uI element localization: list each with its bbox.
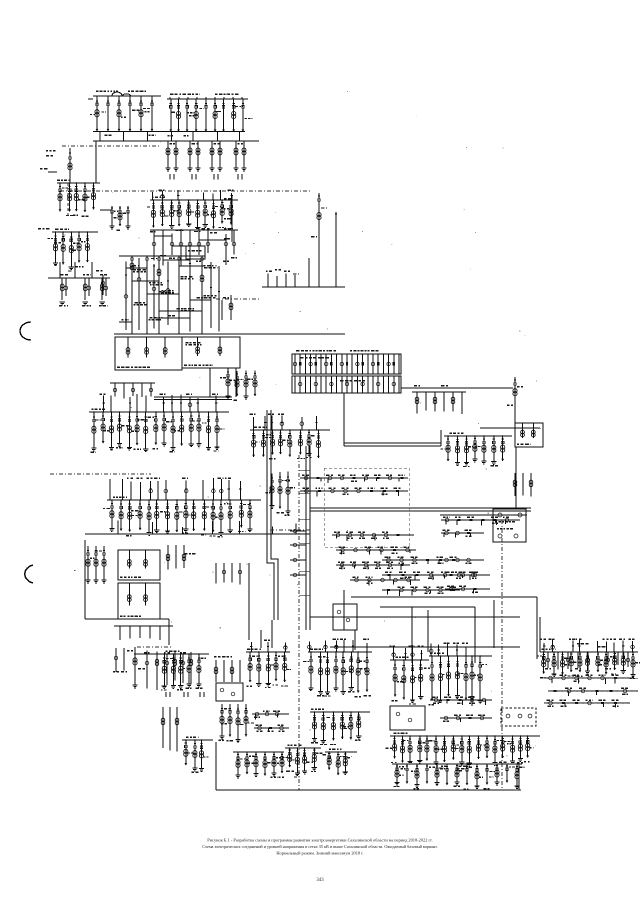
transformer bay W2.4 [341,712,343,739]
transformer left spine [68,163,72,167]
feeder row Q2c [336,564,410,566]
bus y428 [480,427,540,429]
transformer bay L2.1 [55,232,57,263]
bus Z1 [390,659,429,661]
plant cell r2.11 [351,376,353,393]
feeder riser M.u3 [110,395,112,412]
transformer bay E1.10 [622,652,624,671]
arrow line S [134,653,161,655]
east bay 3 [577,652,579,668]
scan noise specks [277,231,280,234]
transformer bay N2.8 [176,500,178,532]
plant cell r1.10 [346,354,348,374]
feeder I.1 [131,256,133,334]
bay S r4 [182,653,184,683]
transformer bay Nc.8 [317,430,319,458]
dash-dot feeder x68 [67,183,69,216]
mesh feeder I+6 [218,266,220,331]
bay K1 [123,383,125,399]
box bay BoxV.2 [532,423,534,438]
transformer bay N2.5 [148,500,150,533]
bus X2 [233,751,284,753]
bay S r3 [174,651,176,681]
transformer bay C2 [175,141,177,168]
feeder bay B7 [223,99,225,132]
feeder bay Y2.9 [486,764,488,785]
transformer bay M.4 [119,412,121,444]
wire drop x169 [168,619,170,645]
transformer bay Z1.4 [420,660,422,696]
plant cell r2.7 [330,376,332,393]
feeder row E2 [544,677,634,679]
transformer bay E1.4 [570,652,572,672]
transformer bay F.9 [221,200,223,223]
channel taps [299,469,310,471]
transformer bay Y.3 [409,736,411,761]
transformer bay Y.4 [419,736,421,760]
wire y607 [380,606,475,608]
feeder bay F.l5 [198,229,200,255]
feeder riser E1.u5 [578,640,580,652]
bay K3 [141,383,143,397]
feeder riser E1.u4 [572,640,574,652]
bay P0 [416,392,418,414]
feeder riser F.u9 [220,190,222,200]
dash-dot trunk x299 [298,455,300,790]
transformer bay M.8 [155,412,157,445]
transformer bay X4.2 [337,752,339,775]
transformer bay Y2.12 [516,764,518,786]
feeder riser Nc.u3 [271,415,273,430]
load pair [213,174,215,180]
transformer bay IJ2 [245,371,247,397]
feeder riser N2.u5 [150,481,152,500]
bay P4 [452,392,454,412]
wire bus ties A [99,132,101,142]
zone dash-dot y474 [50,473,151,475]
transformer bay F.7 [204,200,206,225]
bus main y534 [85,533,310,535]
transformer bay A1 [96,96,98,131]
wire riser x309 [308,258,310,287]
feeder bay Y2.1 [406,764,408,784]
plant cell r2.13 [362,376,364,393]
transformer bay M.9 [163,412,165,443]
transformer bay M.12 [190,412,192,444]
wire drop x540 [539,617,541,652]
riser G2.1 [276,276,278,287]
transformer bay W2.1 [314,712,316,739]
transformer bay A3 [118,96,120,131]
transformer bay X2.4 [273,752,275,773]
plant cell r1.11 [351,354,353,374]
wire box II drop [209,368,211,397]
transformer bay X1.1 [185,740,187,765]
transformer bay M.7 [145,412,147,449]
feeder riser F.u2 [161,191,163,200]
transformer bay B6 [214,99,216,132]
plant cell r2.16 [377,376,379,393]
transformer bay Y2.8 [476,764,478,786]
plant cell r1.12 [356,354,358,374]
bus R1 [444,435,512,437]
mesh feeder I+2 [153,264,155,328]
transformer bay L1b2 [119,206,121,226]
transformer bay V2.2 [258,652,260,684]
bay O r2 [183,545,185,568]
zone boundary dash-dot line upper [62,145,160,147]
feeder I.3 [158,256,160,334]
bay P1 [425,392,427,410]
transformer bay Z1.2 [403,660,405,699]
transformer bay E1.2 [553,652,555,674]
transformer bay L2.5 [86,232,88,262]
feeder J2b [221,300,223,320]
plant cell r2.0 [294,376,296,393]
feeder riser M.u9 [163,398,165,412]
transformer bay Y.1 [394,736,396,758]
transformer bay Y.8 [452,736,454,760]
transformer bay N2.4 [139,500,141,530]
transformer bay CH0 [271,474,273,506]
feeder riser N2.u1 [109,479,111,500]
bay y626.2 [139,626,141,638]
transformer bay Y.14 [502,736,504,758]
feeder bay B9 [242,99,244,132]
box Z [390,706,425,730]
transformer bay N2.13 [220,500,222,533]
feeder bay F.l9 [233,230,235,254]
plant cell r1.20 [398,354,400,374]
bus Y [390,735,540,737]
mesh feeder I+0 [125,261,127,329]
feeder row Q1a [300,477,408,479]
feeder riser N2.u12 [212,478,214,500]
transformer bay L3.1 [61,278,63,300]
bus F [150,199,238,201]
scan mark parenthesis 2 [25,565,33,583]
transformer bay O1 [95,546,97,580]
transformer bay Vl1 [229,704,231,737]
transformer bay V2.3 [267,652,269,683]
feeder riser M.u6 [136,394,138,412]
transformer bay N2.3 [129,500,131,532]
wire drop x355 [354,630,356,650]
feeder row R3e [445,588,490,590]
bus W [308,651,372,653]
transformer chain T1 [318,193,320,265]
east small marks [577,643,579,644]
transformer bay Nc.2 [262,430,264,457]
feeder riser M.u12 [189,397,191,412]
feeder row Q2a [332,534,414,536]
transformer bay B2 [178,99,180,132]
bay S r1 [156,651,158,690]
transformer bay R1.3 [466,436,468,462]
bus A2 lower [93,140,259,142]
bays row K [110,382,155,384]
bay O s0 [215,563,217,584]
transformer bay Y.13 [494,736,496,763]
transformer bay X2.2 [255,752,257,774]
transformer bay N2.9 [185,500,187,529]
station box BoxIII [118,550,160,580]
transformer bay E1.8 [605,652,607,674]
bay V0 [215,660,217,682]
wire vertical x336 [335,212,337,287]
east bay 8 [627,652,629,667]
transformer bay N2.11 [203,500,205,531]
feeder row E3 [548,690,638,692]
plant cell r2.20 [398,376,400,393]
transformer bay IJ1 [236,371,238,396]
feeder riser M.u11 [180,394,182,412]
feeder riser N2.u4 [140,482,142,500]
transformer bay Y.5 [426,736,428,761]
feeder riser N2.u14 [228,480,230,500]
transformer bay X1.3 [201,740,203,769]
wire chain x319 to bus G2 [318,265,320,287]
transformer bay Nc.6 [299,430,301,454]
bus Nc [250,429,330,431]
wire left tap [48,171,57,173]
power plant box row2 [292,376,401,393]
bay K4 [150,383,152,397]
transformer bay X3.3 [304,748,306,771]
bay O s2 [231,563,233,583]
bay y626.3 [149,626,151,638]
feeder riser W.u6 [352,640,354,652]
transformer chain T2 [514,377,516,423]
transformer bay F.3 [171,200,173,226]
load pair [191,174,193,180]
transformer bay M.13 [198,412,200,444]
feeder riser W.u8 [366,643,368,652]
east bay 5 [597,652,599,670]
east bay 1 [557,652,559,670]
transformer bay Vl0 [221,704,223,736]
transformer bay N2.1 [111,500,113,529]
transformer bay N2.10 [193,500,195,531]
east bay 0 [547,652,549,668]
feeder I.4 [178,256,180,334]
feeder row Sc [382,589,460,591]
bus X3 [285,747,321,749]
transformer bay X2.3 [264,752,266,776]
transformer bay X4.1 [328,752,330,770]
box bay BoxIII.2 [145,550,147,569]
bay O r1 [175,545,177,569]
transformer bay Vl2 [237,704,239,739]
bay LC0 [162,707,164,748]
transformer bay U.5 [198,654,200,684]
bay O s3 [239,563,241,584]
transformer bay R1.2 [457,436,459,463]
transformer bay Y.9 [461,736,463,762]
transformer bay L2.4 [78,232,80,263]
transformer bay B4 [195,99,197,132]
transformer bay N2.15 [240,500,242,527]
small box x333 [333,604,357,630]
bay V1 [223,660,225,682]
transformer bay Z2.6 [471,656,473,696]
feeder row Sa [382,559,470,561]
feeder I.2 [146,256,148,334]
dashed box DC [501,708,536,726]
plant cell r1.1 [299,354,301,374]
feeder bay F.l6 [207,228,209,253]
box bay BoxII.1 [197,337,199,356]
transformer bay R1.6 [493,436,495,462]
transformer bay N2.2 [120,500,122,531]
transformer bay F.6 [197,200,199,227]
transformer bay E1.5 [579,652,581,672]
feeder bay F.l2 [171,234,173,256]
feeder bay F.l8 [225,234,227,265]
transformer bay X3.2 [296,748,298,773]
transformer bay M.1 [93,412,95,448]
transformer bay L3.2 [84,278,86,300]
feeder riser E1.u2 [552,639,554,652]
east bay 2 [567,652,569,669]
plant cell r1.5 [320,354,322,374]
transformer bay Nc.5 [289,430,291,457]
plant cell r2.1 [299,376,301,393]
feeder riser W.u3 [325,640,327,652]
feeder riser F.u4 [177,190,179,200]
transformer bay B8 [233,99,235,132]
box bay BoxIII.1 [128,550,130,569]
transformer bay N2.6 [156,500,158,530]
feeder bay L1b3 [127,206,129,226]
bay V3 [239,660,241,682]
bus W2 [310,711,370,713]
feeder row Vr [252,713,289,715]
transformer bay Y.11 [478,736,480,759]
transformer bay Y2.6 [456,764,458,782]
transformer bay E1.1 [543,652,545,674]
transformer bay C3 [189,141,191,168]
wire risers to y534 [117,520,119,534]
transformer bay L1.4 [84,183,86,212]
wire drop x412 [411,607,413,663]
transformer bay R1.4 [474,436,476,459]
box bay BoxIV.2 [145,583,147,605]
transformer bay F.8 [213,200,215,229]
wire left drop x85 [84,540,86,619]
bay P3 [443,392,445,411]
bay P2 [434,392,436,411]
transformer bay W.6 [350,652,352,688]
bus U [160,653,209,655]
mesh links I region [126,267,147,269]
transformer bay U.1 [163,654,165,686]
transformer bay F.4 [178,200,180,226]
feeder riser Z2.u3 [446,643,448,656]
feeder riser W.u5 [343,640,345,652]
plant cell r1.14 [367,354,369,374]
bay S r5 [190,652,192,684]
bus V2 [246,651,290,653]
plant cell r2.19 [393,376,395,393]
bus X1 [182,739,213,741]
transformer bay W2.5 [350,712,352,739]
riser G2.3 [294,275,296,287]
bus Z2 [429,655,492,657]
feeder riser Z1.u4 [421,650,423,660]
ring cluster [493,509,526,542]
bus y626 small [114,625,173,627]
station box I-top [186,246,205,259]
wire drop x249 [248,563,250,640]
transformer bay IJ0 [227,369,229,396]
transformer bay V2.1 [249,652,251,682]
dash-dot y647 [137,646,171,648]
feeder riser M.u15 [215,396,217,412]
feeder bay B3 [186,99,188,132]
transformer bay Z1.1 [394,660,396,697]
transformer bay R1.1 [447,436,449,461]
transformer bay W2.3 [332,712,334,740]
transformer bay N2.7 [167,500,169,531]
transformer bay Nc.3 [272,430,274,455]
feeder row Sb [382,574,480,576]
bay LC1 [169,707,171,751]
plant cell r2.14 [367,376,369,393]
feeder riser Nc.u2 [264,416,266,430]
bus P row [412,391,466,393]
transformer bay M.15 [216,412,218,447]
feeder row E4 [544,702,630,704]
bus G2 [262,286,345,288]
transformer bay M.3 [111,412,113,447]
transformer bay Y2.4 [436,764,438,782]
station box BoxII [182,337,240,368]
plant cell r2.18 [388,376,390,393]
transformer bay Z1.3 [412,660,414,700]
bay Sl0 [115,648,117,672]
feeder riser F.u7 [202,193,204,201]
bus dense y397 [154,396,232,398]
east bay 4 [587,652,589,670]
bus L2 [52,231,98,233]
feeder riser Z1.u2 [405,648,407,660]
bay R2.0 [514,473,516,496]
channel bay 0 [290,530,306,532]
transformer bay Z2.7 [479,656,481,700]
feeder J2 [230,295,232,320]
plant cell r1.6 [325,354,327,374]
feeder riser E1.u9 [613,643,615,652]
east dashes [544,677,636,679]
svg-text:343: 343 [316,878,324,883]
feeder riser W.u4 [335,640,337,652]
feeder row Q2b [336,549,416,551]
wire drop x519 [518,762,520,790]
bay S r0 [146,650,148,688]
feeder row R3c [441,559,484,561]
feeder riser Z1.u3 [412,645,414,660]
transformer bay E1.7 [597,652,599,672]
wire drop x272 [271,620,273,648]
transformer bay W.3 [327,652,329,692]
transformer bay X2.1 [246,752,248,774]
transformer bay U.4 [188,654,190,684]
feeder riser Nc.u1 [253,417,255,430]
transformer bay F.10 [230,200,232,224]
transformer bay CH2 [287,471,289,511]
bus y515 [440,514,527,516]
